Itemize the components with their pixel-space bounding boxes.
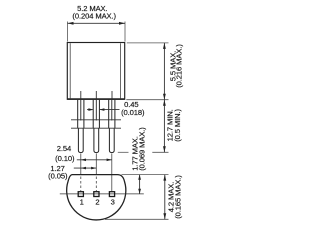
lead 3 shoulder — [109, 100, 115, 128]
lead 3 pin — [109, 128, 114, 152]
pad 2 — [94, 192, 99, 197]
svg-text:12.7 MIN.(0.5 MIN.): 12.7 MIN.(0.5 MIN.) — [165, 108, 182, 141]
dim 0.45 arrows at lead 2 — [87, 109, 120, 111]
svg-text:(0.05): (0.05) — [48, 172, 68, 181]
lead 2 pin — [94, 128, 99, 152]
lead stubs inside body — [81, 91, 112, 99]
lead extension lines to bottom view — [81, 154, 112, 192]
dim 5.2 MAX dimension line — [68, 22, 126, 24]
svg-text:2: 2 — [95, 198, 99, 207]
svg-text:2.54: 2.54 — [57, 144, 71, 153]
body mold lines — [70, 43, 120, 98]
dim 1.77 MAX dimension line — [139, 175, 141, 194]
pad 3 — [109, 192, 114, 197]
lead 2 shoulder — [93, 100, 99, 128]
pad 1 — [78, 192, 83, 197]
package body outline (front view) — [67, 43, 124, 100]
dim 5.5 MAX dimension line — [163, 43, 165, 100]
lead 1 pin — [78, 128, 83, 152]
svg-text:1: 1 — [80, 198, 84, 207]
dim 1.27 dimension line — [74, 167, 97, 169]
dim 4.2 MAX dimension line — [164, 175, 166, 220]
dim 5.2 MAX extension lines — [68, 22, 126, 42]
dim 5.2 MAX arrowheads — [68, 22, 74, 25]
pad center dashes — [81, 177, 97, 192]
dim 2.54 dimension line — [77, 159, 112, 161]
lead break lines — [71, 120, 121, 128]
lead 1 shoulder — [78, 100, 84, 128]
right-side extension lines — [105, 43, 169, 219]
pad center line — [60, 193, 144, 195]
svg-text:(0.018): (0.018) — [121, 108, 145, 117]
bottom view outline — [67, 175, 126, 220]
svg-text:(0.10): (0.10) — [55, 154, 75, 163]
svg-text:3: 3 — [111, 198, 115, 207]
svg-text:(0.204 MAX.): (0.204 MAX.) — [72, 12, 116, 21]
dim 12.7 MIN dimension line — [163, 100, 165, 153]
